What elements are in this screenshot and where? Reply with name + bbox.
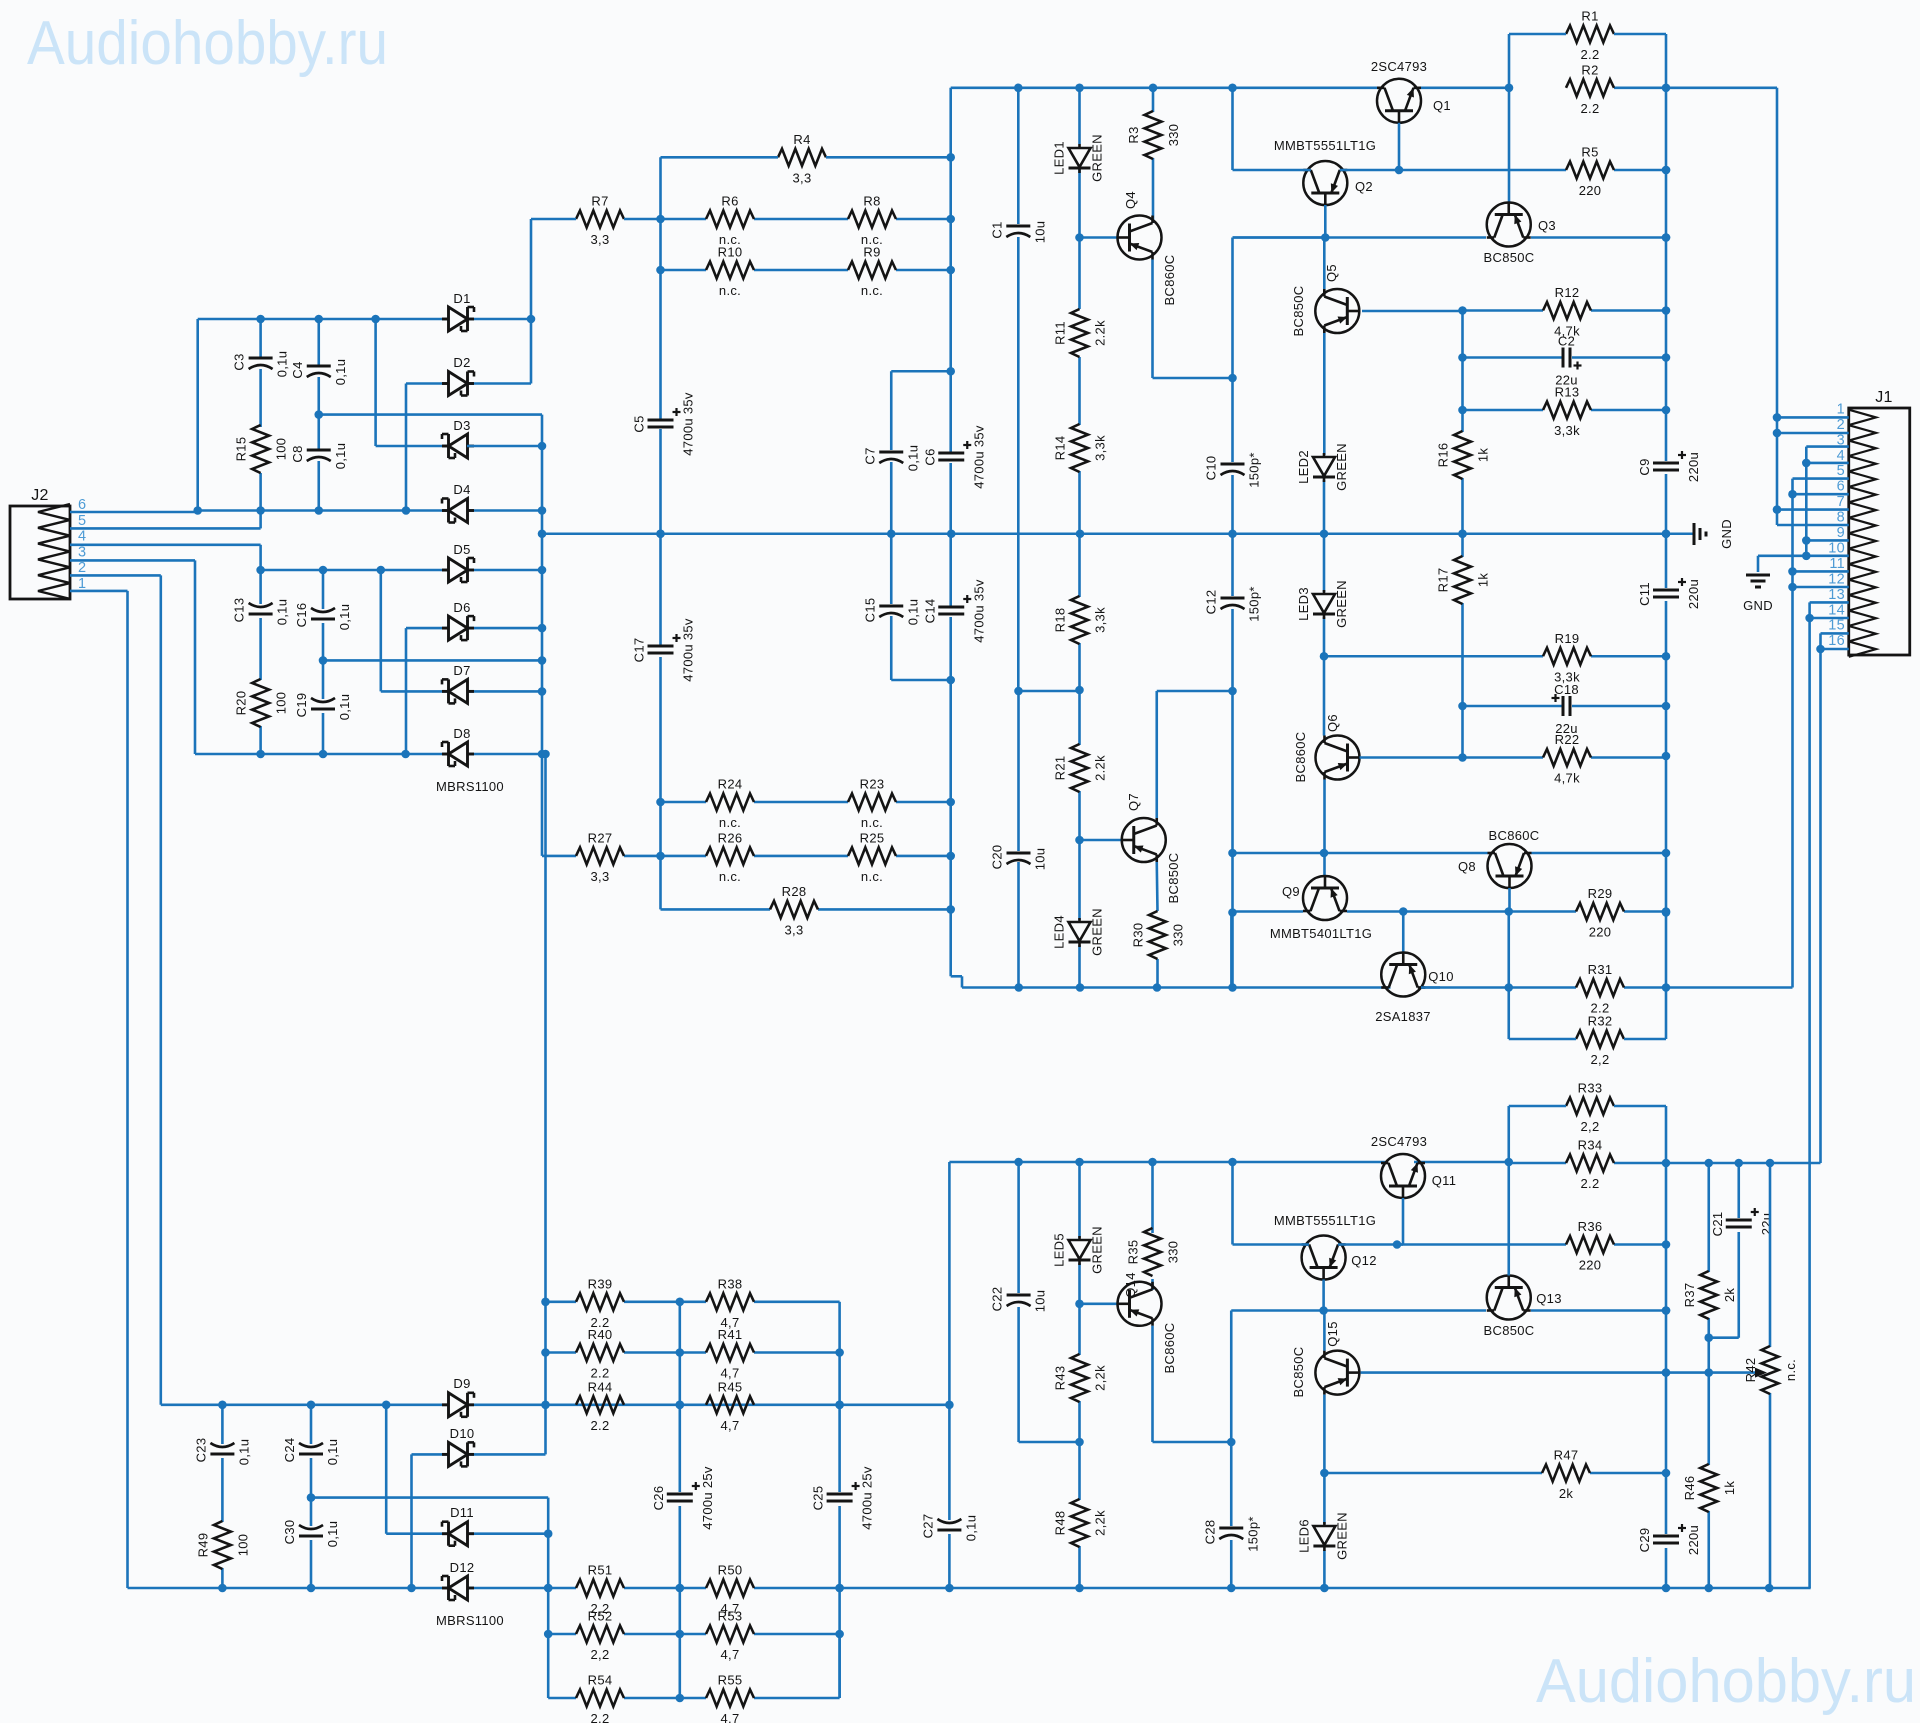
svg-text:0,1u: 0,1u xyxy=(963,1515,978,1542)
wire Q15 base line xyxy=(1361,1371,1757,1374)
resistor R31 xyxy=(1576,962,1624,1016)
wire Q5 emitter xyxy=(1323,333,1326,534)
svg-text:Q4: Q4 xyxy=(1123,191,1138,209)
transistor Q4 xyxy=(1118,191,1178,305)
capacitor C10 xyxy=(1204,452,1262,487)
resistor R33 xyxy=(1566,1081,1614,1135)
resistor R49 xyxy=(195,1521,250,1569)
label J1 pin 7 xyxy=(1837,494,1845,510)
svg-text:2: 2 xyxy=(78,560,86,576)
junction J1 out pins xyxy=(1773,413,1782,514)
svg-text:4,7k: 4,7k xyxy=(1554,771,1580,786)
svg-text:0,1u: 0,1u xyxy=(905,599,920,626)
transistor Q6 xyxy=(1293,714,1360,782)
wire D2 line xyxy=(406,319,531,511)
capacitor C7 xyxy=(862,445,920,472)
svg-text:GREEN: GREEN xyxy=(1334,580,1349,628)
label J1 pin 8 xyxy=(1837,510,1845,526)
label D10 xyxy=(450,1426,475,1441)
svg-text:BC850C: BC850C xyxy=(1291,1347,1306,1398)
resistor R30 xyxy=(1131,911,1186,959)
svg-text:R9: R9 xyxy=(863,245,880,260)
svg-text:3,3: 3,3 xyxy=(591,232,610,247)
wire J1 out2 pins xyxy=(1810,602,1849,1588)
junction mid rail xyxy=(656,529,1670,538)
label D6 xyxy=(453,600,470,615)
svg-text:R19: R19 xyxy=(1555,631,1580,646)
resistor R7 xyxy=(576,194,624,248)
diode D3 xyxy=(442,434,474,458)
junction C26 column xyxy=(676,1298,685,1703)
transistor Q8 xyxy=(1458,828,1539,888)
svg-text:0,1u: 0,1u xyxy=(236,1439,251,1466)
svg-text:Q9: Q9 xyxy=(1282,884,1300,899)
svg-text:C1: C1 xyxy=(989,221,1004,238)
wire Q14 emitter xyxy=(1153,1326,1232,1442)
wire Q3 tips line xyxy=(1233,236,1667,239)
svg-text:0,1u: 0,1u xyxy=(275,599,290,626)
ground GND1 xyxy=(1666,519,1734,549)
wire top plus rail xyxy=(951,87,1777,90)
capacitor C21 xyxy=(1710,1208,1774,1236)
capacitor C24 xyxy=(282,1438,340,1466)
wire Q5 collector xyxy=(1323,238,1326,290)
svg-text:n.c.: n.c. xyxy=(1783,1359,1798,1381)
svg-text:Q15: Q15 xyxy=(1325,1321,1340,1346)
svg-text:BC860C: BC860C xyxy=(1293,732,1308,783)
svg-text:GREEN: GREEN xyxy=(1090,908,1105,956)
resistor R35 xyxy=(1126,1228,1181,1276)
capacitor C27 xyxy=(920,1514,978,1542)
svg-text:n.c.: n.c. xyxy=(719,283,741,298)
junction right column top xyxy=(1662,908,1671,917)
svg-text:R8: R8 xyxy=(863,194,880,209)
resistor R45 xyxy=(706,1379,754,1433)
junction bottom plus rail xyxy=(1014,1158,1774,1168)
svg-text:2.2: 2.2 xyxy=(591,1418,610,1433)
diode D9 xyxy=(442,1393,474,1417)
svg-text:n.c.: n.c. xyxy=(861,815,883,830)
junction R37 column xyxy=(1704,1333,1713,1342)
svg-text:Audiohobby.ru: Audiohobby.ru xyxy=(27,9,388,78)
capacitor C14 xyxy=(922,579,986,643)
svg-text:2SA1837: 2SA1837 xyxy=(1375,1009,1431,1024)
svg-text:2.2: 2.2 xyxy=(591,1711,610,1723)
wire R13 row xyxy=(1463,409,1667,412)
junction R5 line xyxy=(1395,166,1671,175)
connector J1 xyxy=(1849,389,1910,657)
wire C28 column xyxy=(1230,1442,1233,1588)
junction C5 column xyxy=(656,215,665,861)
capacitor C11 xyxy=(1637,578,1701,609)
svg-text:C23: C23 xyxy=(193,1438,208,1463)
svg-text:2,2: 2,2 xyxy=(591,1647,610,1662)
wire J2 pin3 xyxy=(70,560,195,754)
svg-text:R34: R34 xyxy=(1578,1138,1603,1153)
wire R52 row xyxy=(548,1633,839,1636)
svg-text:15: 15 xyxy=(1828,618,1845,634)
label J1 pin 9 xyxy=(1837,525,1845,541)
svg-text:4: 4 xyxy=(1837,448,1845,464)
wire LED3 column xyxy=(1323,534,1326,736)
resistor R54 xyxy=(576,1673,624,1723)
svg-text:150p*: 150p* xyxy=(1245,1516,1260,1551)
label MBRS1100 D8 xyxy=(436,779,504,794)
resistor R41 xyxy=(706,1327,754,1381)
resistor R19 xyxy=(1543,631,1591,685)
junction J1 fb pins xyxy=(1788,490,1797,591)
svg-text:LED1: LED1 xyxy=(1052,141,1067,175)
wire Q4 base xyxy=(1080,236,1118,239)
svg-text:R13: R13 xyxy=(1555,385,1580,400)
wire R28 row xyxy=(661,908,951,911)
label D3 xyxy=(453,418,470,433)
wire pin6 riser xyxy=(196,319,199,512)
resistor R43 xyxy=(1053,1354,1108,1402)
svg-text:GREEN: GREEN xyxy=(1090,134,1105,182)
svg-text:R11: R11 xyxy=(1053,321,1068,345)
resistor R6 xyxy=(706,194,754,248)
svg-text:R20: R20 xyxy=(234,691,249,716)
svg-text:D7: D7 xyxy=(453,663,470,678)
wire R10R9 row xyxy=(661,269,951,272)
resistor R46 xyxy=(1682,1464,1737,1512)
svg-text:GREEN: GREEN xyxy=(1334,443,1349,491)
svg-text:220: 220 xyxy=(1579,1258,1602,1273)
svg-text:13: 13 xyxy=(1828,587,1845,603)
svg-text:0,1u: 0,1u xyxy=(905,445,920,472)
wire Q15 emitter xyxy=(1323,1395,1326,1588)
svg-text:1: 1 xyxy=(1837,401,1845,417)
svg-text:R35: R35 xyxy=(1126,1240,1141,1265)
svg-text:R49: R49 xyxy=(195,1533,210,1558)
resistor R40 xyxy=(576,1327,624,1381)
diode D10 xyxy=(442,1442,474,1466)
svg-text:Audiohobby.ru: Audiohobby.ru xyxy=(1536,1647,1916,1716)
svg-text:C24: C24 xyxy=(282,1438,297,1463)
wire Q10 base xyxy=(1402,912,1405,953)
svg-text:D12: D12 xyxy=(450,1560,475,1575)
svg-text:3,3k: 3,3k xyxy=(1093,607,1108,633)
svg-text:R25: R25 xyxy=(860,830,885,845)
diode D2 xyxy=(442,372,474,396)
trimmer arrow R42 xyxy=(1755,1368,1767,1378)
svg-text:MMBT5551LT1G: MMBT5551LT1G xyxy=(1274,1213,1376,1228)
resistor R29 xyxy=(1576,886,1624,940)
svg-text:D9: D9 xyxy=(453,1376,470,1391)
resistor R12 xyxy=(1543,285,1591,339)
svg-text:0,1u: 0,1u xyxy=(325,1521,340,1548)
svg-text:4,7: 4,7 xyxy=(721,1711,740,1723)
svg-text:R46: R46 xyxy=(1682,1476,1697,1501)
svg-text:220: 220 xyxy=(1589,925,1612,940)
wire top bridge rail xyxy=(198,318,531,321)
svg-text:R7: R7 xyxy=(591,194,608,209)
svg-text:2.2: 2.2 xyxy=(1581,101,1600,116)
junction Q8 column xyxy=(1504,983,1513,992)
svg-text:100: 100 xyxy=(274,692,289,715)
svg-text:C15: C15 xyxy=(862,598,877,623)
wire R54 row xyxy=(548,1634,839,1698)
label J1 pin 5 xyxy=(1837,463,1845,479)
svg-text:3,3: 3,3 xyxy=(793,170,812,185)
diode D11 xyxy=(442,1522,474,1546)
svg-text:BC860C: BC860C xyxy=(1162,255,1177,306)
wire Q12 tips line xyxy=(1233,1162,1667,1245)
svg-text:J1: J1 xyxy=(1875,389,1893,406)
wire bottom plus rail xyxy=(949,1162,1820,1163)
diode D6 xyxy=(442,616,474,640)
svg-text:6: 6 xyxy=(78,497,86,513)
capacitor C25 xyxy=(811,1466,875,1530)
junction minus rail xyxy=(1014,983,1236,992)
label D4 xyxy=(453,482,470,497)
capacitor C22 xyxy=(990,1287,1048,1313)
capacitor C1 xyxy=(989,221,1047,244)
svg-text:C13: C13 xyxy=(232,598,247,623)
capacitor C8 xyxy=(290,443,348,470)
wire R37 column xyxy=(1707,1163,1710,1588)
svg-text:2k: 2k xyxy=(1722,1288,1737,1303)
svg-text:C29: C29 xyxy=(1637,1528,1652,1553)
svg-text:R33: R33 xyxy=(1578,1081,1603,1096)
svg-text:4700u 25v: 4700u 25v xyxy=(700,1466,715,1530)
wire Q13 base xyxy=(1507,1162,1510,1276)
resistor R18 xyxy=(1053,596,1108,644)
label J1 pin 13 xyxy=(1828,587,1845,603)
junction bottom rail xyxy=(218,1584,1773,1593)
svg-text:R24: R24 xyxy=(718,777,743,792)
transistor Q12 xyxy=(1274,1213,1377,1280)
svg-text:10u: 10u xyxy=(1033,848,1048,871)
svg-text:100: 100 xyxy=(235,1534,250,1557)
svg-text:C2: C2 xyxy=(1558,334,1575,349)
label J1 pin 14 xyxy=(1828,602,1845,618)
svg-text:22u: 22u xyxy=(1759,1213,1774,1236)
svg-text:LED6: LED6 xyxy=(1296,1519,1311,1553)
svg-text:C28: C28 xyxy=(1202,1520,1217,1545)
LED LED6 xyxy=(1296,1512,1349,1560)
wire J2 pin6 net xyxy=(70,511,198,514)
svg-text:7: 7 xyxy=(1837,494,1845,510)
transistor Q10 xyxy=(1375,953,1454,1025)
svg-text:D5: D5 xyxy=(453,542,470,557)
junction J1 out2 xyxy=(1805,614,1814,623)
svg-text:0,1u: 0,1u xyxy=(275,351,290,378)
svg-text:LED3: LED3 xyxy=(1296,587,1311,621)
svg-text:10u: 10u xyxy=(1033,1290,1048,1313)
label J1 pin 4 xyxy=(1837,448,1845,464)
junction D5 rail xyxy=(256,566,546,575)
svg-text:C4: C4 xyxy=(290,361,305,378)
label D9 xyxy=(453,1376,470,1391)
capacitor C15 xyxy=(862,598,920,626)
label J1 pin 16 xyxy=(1828,633,1845,649)
capacitor C29 xyxy=(1637,1524,1701,1555)
wire J1 gnd pins xyxy=(1758,447,1849,572)
resistor R15 xyxy=(234,425,289,473)
resistor R8 xyxy=(848,194,896,248)
wire R3 column xyxy=(1152,88,1155,223)
svg-text:8: 8 xyxy=(1837,510,1845,526)
label J1 pin 6 xyxy=(1837,479,1845,495)
wire J2 pin1 xyxy=(70,591,128,1588)
wire C4 column xyxy=(317,319,320,511)
svg-text:0,1u: 0,1u xyxy=(333,443,348,470)
svg-text:R15: R15 xyxy=(234,437,249,462)
wire plus rail xyxy=(198,509,542,512)
svg-text:R36: R36 xyxy=(1578,1219,1603,1234)
label D5 xyxy=(453,542,470,557)
svg-text:R3: R3 xyxy=(1126,126,1141,143)
svg-text:Q13: Q13 xyxy=(1536,1291,1561,1306)
svg-text:GREEN: GREEN xyxy=(1090,1226,1105,1274)
label D8 xyxy=(453,726,470,741)
capacitor C9 xyxy=(1637,451,1701,482)
wire C4 link xyxy=(319,413,542,416)
wire R27 row xyxy=(542,855,951,858)
wire C21 column xyxy=(1709,1163,1739,1338)
capacitor C17 xyxy=(632,618,696,682)
svg-text:R50: R50 xyxy=(718,1563,743,1578)
svg-text:LED4: LED4 xyxy=(1052,915,1067,949)
wire center column xyxy=(1231,238,1234,988)
LED LED4 xyxy=(1052,908,1105,956)
wire Q8 base xyxy=(1508,888,1511,912)
wire C2 row xyxy=(1463,356,1667,359)
svg-text:BC850C: BC850C xyxy=(1291,286,1306,337)
wire Q2 tips line xyxy=(1233,88,1667,170)
junction bridge column xyxy=(538,442,547,759)
wire mid GND rail xyxy=(542,532,1694,535)
wire Q5 base line xyxy=(1362,309,1666,312)
wire J1 fb pins xyxy=(1793,479,1849,988)
wire Q2 lead xyxy=(1233,205,1326,238)
resistor R52 xyxy=(576,1609,624,1663)
resistor R42 xyxy=(1743,1346,1798,1394)
wire bottom right column xyxy=(1665,1163,1668,1588)
wire Q4 emitter xyxy=(1153,260,1233,379)
svg-text:C20: C20 xyxy=(990,845,1005,870)
svg-text:4,7: 4,7 xyxy=(721,1647,740,1662)
svg-text:5: 5 xyxy=(1837,463,1845,479)
capacitor C12 xyxy=(1204,586,1262,621)
label D1 xyxy=(453,291,470,306)
wire R39 row xyxy=(546,1302,840,1353)
svg-text:D6: D6 xyxy=(453,600,470,615)
wire Q9 line xyxy=(1231,912,1403,988)
svg-text:C3: C3 xyxy=(232,353,247,370)
resistor R32 xyxy=(1576,1014,1624,1068)
svg-text:C22: C22 xyxy=(990,1287,1005,1312)
svg-text:C17: C17 xyxy=(632,638,647,663)
svg-text:4,7: 4,7 xyxy=(721,1366,740,1381)
svg-text:BC850C: BC850C xyxy=(1484,250,1535,265)
connector J2 xyxy=(10,487,86,599)
label J1 pin 3 xyxy=(1837,432,1845,448)
svg-text:GREEN: GREEN xyxy=(1334,1512,1349,1560)
wire top minus rail xyxy=(962,986,1440,989)
capacitor C28 xyxy=(1202,1516,1260,1551)
svg-text:C8: C8 xyxy=(290,445,305,462)
junction D8 rail xyxy=(256,750,549,759)
svg-text:LED5: LED5 xyxy=(1052,1233,1067,1267)
wire R24R23 row xyxy=(661,801,951,804)
svg-text:R17: R17 xyxy=(1436,568,1451,593)
svg-text:12: 12 xyxy=(1828,571,1845,587)
svg-text:4,7: 4,7 xyxy=(721,1418,740,1433)
svg-text:D11: D11 xyxy=(450,1505,474,1520)
svg-text:220u: 220u xyxy=(1686,452,1701,482)
svg-text:R22: R22 xyxy=(1555,732,1580,747)
wire D9 column xyxy=(544,754,547,1454)
wire R47 row xyxy=(1324,1472,1666,1475)
wire R42 column xyxy=(1769,1163,1772,1588)
resistor R26 xyxy=(706,830,754,884)
svg-text:0,1u: 0,1u xyxy=(325,1439,340,1466)
svg-text:R30: R30 xyxy=(1131,923,1146,948)
svg-text:150p*: 150p* xyxy=(1247,586,1262,621)
svg-text:0,1u: 0,1u xyxy=(333,359,348,386)
wire Q10 tips xyxy=(1421,986,1793,989)
resistor R1 xyxy=(1566,9,1614,63)
wire Q13 tips line xyxy=(1231,1311,1666,1443)
transistor Q14 xyxy=(1118,1272,1178,1373)
wire mid link bottom xyxy=(311,1498,548,1698)
svg-text:R18: R18 xyxy=(1053,608,1068,633)
wire R1 link xyxy=(1509,34,1666,88)
svg-text:R38: R38 xyxy=(718,1276,743,1291)
wire C26 column xyxy=(678,1302,681,1698)
capacitor C23 xyxy=(193,1438,251,1466)
capacitor C2 xyxy=(1555,334,1581,388)
svg-text:BC850C: BC850C xyxy=(1166,853,1181,904)
svg-text:10: 10 xyxy=(1828,540,1845,556)
svg-text:C5: C5 xyxy=(632,415,647,432)
wire C13 column xyxy=(259,570,262,754)
svg-text:C19: C19 xyxy=(294,693,309,718)
svg-text:4700u 35v: 4700u 35v xyxy=(971,579,986,643)
svg-text:Q3: Q3 xyxy=(1538,218,1556,233)
junction R31 xyxy=(1662,983,1671,992)
resistor R55 xyxy=(706,1673,754,1723)
transistor Q5 xyxy=(1291,264,1359,336)
svg-text:330: 330 xyxy=(1171,924,1186,947)
wire R22 row xyxy=(1463,756,1667,759)
resistor R22 xyxy=(1543,732,1591,786)
svg-text:C18: C18 xyxy=(1554,682,1579,697)
svg-text:C7: C7 xyxy=(862,447,877,464)
junction J1 out3 xyxy=(1816,645,1825,654)
capacitor C30 xyxy=(282,1520,340,1548)
junction Q9 line xyxy=(1399,907,1670,916)
svg-text:R21: R21 xyxy=(1053,756,1068,781)
wire D10 line xyxy=(412,1454,546,1588)
svg-text:2,2k: 2,2k xyxy=(1093,1365,1108,1391)
wire C24 column xyxy=(310,1405,313,1588)
svg-text:R16: R16 xyxy=(1436,443,1451,468)
junction D9 column xyxy=(541,1298,550,1357)
junction Q15 base line xyxy=(1662,1368,1713,1377)
wire R32 link xyxy=(1509,853,1666,1039)
svg-text:R32: R32 xyxy=(1588,1014,1613,1029)
svg-text:14: 14 xyxy=(1828,602,1845,618)
svg-text:C26: C26 xyxy=(651,1486,666,1511)
junction plus rail xyxy=(193,506,546,515)
svg-text:2SC4793: 2SC4793 xyxy=(1371,59,1427,74)
resistor R2 xyxy=(1566,62,1614,116)
svg-text:D10: D10 xyxy=(450,1426,475,1441)
